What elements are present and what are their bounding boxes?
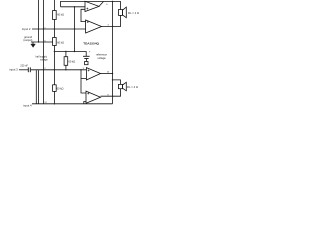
resistor R4 60k bbox=[53, 85, 57, 92]
wire V1 input1 return bbox=[38, 0, 40, 42]
wire input 3 left bbox=[19, 69, 28, 71]
wire resistor column lower bbox=[53, 46, 55, 85]
op-amp A4 bbox=[86, 91, 101, 103]
wire phase link A1-A2 bbox=[81, 9, 86, 21]
resistor R3 60k bbox=[64, 57, 68, 66]
svg-text:+: + bbox=[89, 50, 91, 54]
svg-text:(output): (output) bbox=[23, 38, 32, 42]
svg-text:60 kΩ: 60 kΩ bbox=[57, 13, 64, 17]
wire vertical pair left bbox=[35, 70, 37, 104]
svg-text:60 kΩ: 60 kΩ bbox=[57, 40, 64, 44]
wire speaker2 bottom to A4 output bbox=[101, 89, 121, 97]
IC box left edge bbox=[42, 0, 44, 104]
junction phase link input3 bbox=[80, 70, 82, 79]
svg-text:input 3: input 3 bbox=[9, 67, 18, 71]
wire A2 output to speaker bbox=[102, 15, 121, 26]
wire input line to A1 bbox=[61, 6, 86, 8]
wire R3 bottom bbox=[65, 65, 67, 70]
wire ground (output) bbox=[31, 41, 53, 43]
junction dots bbox=[38, 1, 113, 105]
loudspeaker LS1 bbox=[119, 7, 127, 18]
IC box right edge bbox=[112, 2, 114, 104]
svg-text:voltage: voltage bbox=[40, 59, 48, 62]
svg-text:voltage: voltage bbox=[97, 56, 106, 60]
loudspeaker LS2 bbox=[119, 82, 127, 91]
svg-text:60 kΩ: 60 kΩ bbox=[57, 87, 64, 91]
svg-text:R L = 4 Ω: R L = 4 Ω bbox=[127, 85, 138, 89]
ground symbol output bbox=[31, 42, 36, 47]
wire top rail corner bbox=[61, 2, 121, 10]
wire vertical pair right bbox=[38, 70, 40, 104]
wire bottom line input 4 and box bottom bbox=[32, 103, 113, 105]
resistor R2 60k bbox=[53, 38, 57, 46]
wire rail to speaker2 top bbox=[113, 80, 121, 85]
svg-text:R L = 4 Ω: R L = 4 Ω bbox=[128, 11, 139, 15]
svg-text:220 nF: 220 nF bbox=[20, 65, 28, 68]
wire phase link A3-A4 bbox=[81, 79, 86, 94]
ground symbol C2 bbox=[85, 62, 88, 65]
wire R4 bottom bbox=[53, 91, 55, 103]
svg-text:6: 6 bbox=[106, 4, 108, 6]
resistor R1 60k bbox=[53, 11, 57, 20]
wire V4 bias bbox=[74, 7, 76, 52]
svg-text:60 kΩ: 60 kΩ bbox=[68, 59, 75, 63]
svg-text:input 4: input 4 bbox=[23, 103, 32, 107]
capacitor C1 220nF bbox=[28, 67, 30, 72]
wire R1 to R2 bbox=[53, 20, 55, 38]
capacitor C2 electrolytic SVR bbox=[83, 56, 90, 61]
wire R3 top feed bbox=[65, 52, 67, 57]
wire SVR line bbox=[54, 52, 86, 57]
wire input 2 bbox=[32, 28, 86, 30]
wire resistor column top feed bbox=[53, 0, 55, 11]
wire input 3 right bbox=[31, 69, 87, 71]
wire A4 lower input bbox=[84, 102, 86, 104]
wire A3 output bbox=[101, 73, 113, 75]
svg-text:TDA1554Q: TDA1554Q bbox=[83, 41, 99, 45]
text labels bbox=[9, 4, 139, 107]
op-amp A2 bbox=[86, 20, 102, 33]
op-amp A1 bbox=[85, 1, 104, 11]
svg-text:input 2: input 2 bbox=[22, 27, 31, 31]
op-amp A3 bbox=[86, 68, 100, 80]
svg-text:reference: reference bbox=[96, 53, 108, 57]
